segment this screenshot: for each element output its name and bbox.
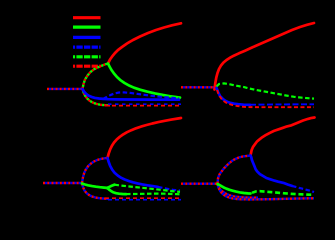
- plot3 upper unstable arc red+blue dashed: [82, 158, 108, 183]
- plot2 green dashed branch: [217, 83, 315, 98]
- legend line 4 blue dashed: [73, 45, 101, 48]
- plot1 red stable branch: [108, 23, 181, 63]
- plot4 upper unstable arc red+blue dashed: [218, 156, 251, 184]
- plot3 green lower fork dashed: [126, 193, 181, 196]
- plot3 blue stable branch: [108, 158, 159, 187]
- plot1 bottom red dashed line: [105, 105, 181, 107]
- plot4 red stable branch: [251, 118, 315, 156]
- plot4 green dashed branch: [252, 191, 314, 195]
- plot3 green upper fork dashed: [115, 185, 181, 192]
- plot1 blue dashed branch upper: [103, 92, 179, 99]
- plot3 green stable branch: [82, 184, 107, 188]
- plot4 blue stable branch: [251, 156, 293, 186]
- plot2 red stable branch: [215, 23, 315, 90]
- plot4 inner unstable line red+blue dashed: [219, 188, 258, 198]
- plot4 green stable branch: [218, 184, 251, 194]
- plot2 red dashed branch: [217, 90, 314, 107]
- plot3 bottom red dashed line: [105, 197, 181, 199]
- legend line 1 red solid: [73, 16, 101, 19]
- legend line 5 green dashed: [73, 55, 101, 58]
- plot2 blue stable branch: [217, 88, 251, 105]
- plot3 green upper fork: [107, 185, 115, 188]
- plot1 baseline red+blue dashed: [47, 88, 82, 90]
- plot1 bottom blue dashed line: [108, 103, 181, 105]
- plot2 baseline red+blue dashed: [181, 86, 217, 88]
- legend line 2 green solid: [73, 26, 101, 29]
- plot1 green stable branch: [108, 64, 180, 98]
- plot3 red stable branch: [108, 118, 182, 158]
- plot2 blue dashed continuation: [250, 103, 314, 105]
- plot1 upper unstable arc red+green dashed: [83, 64, 109, 89]
- plot3 blue dashed continuation: [158, 187, 180, 191]
- plot3 bottom blue dashed line: [108, 199, 181, 201]
- plot3 green lower fork: [107, 188, 126, 194]
- plot4 baseline red+blue dashed: [181, 182, 218, 184]
- plot1 blue stable branch lower: [83, 89, 180, 100]
- plot4 lower unstable arc red+blue dashed: [218, 184, 315, 199]
- legend line 6 red dashed: [73, 65, 101, 68]
- plot3 lower unstable arc red+blue dashed: [82, 184, 108, 199]
- plot4 blue dashed continuation: [292, 186, 314, 192]
- plot1 lower unstable arc red+green dashed: [83, 89, 111, 105]
- plot3 baseline red+blue dashed: [43, 182, 82, 184]
- legend line 3 blue solid: [73, 36, 101, 39]
